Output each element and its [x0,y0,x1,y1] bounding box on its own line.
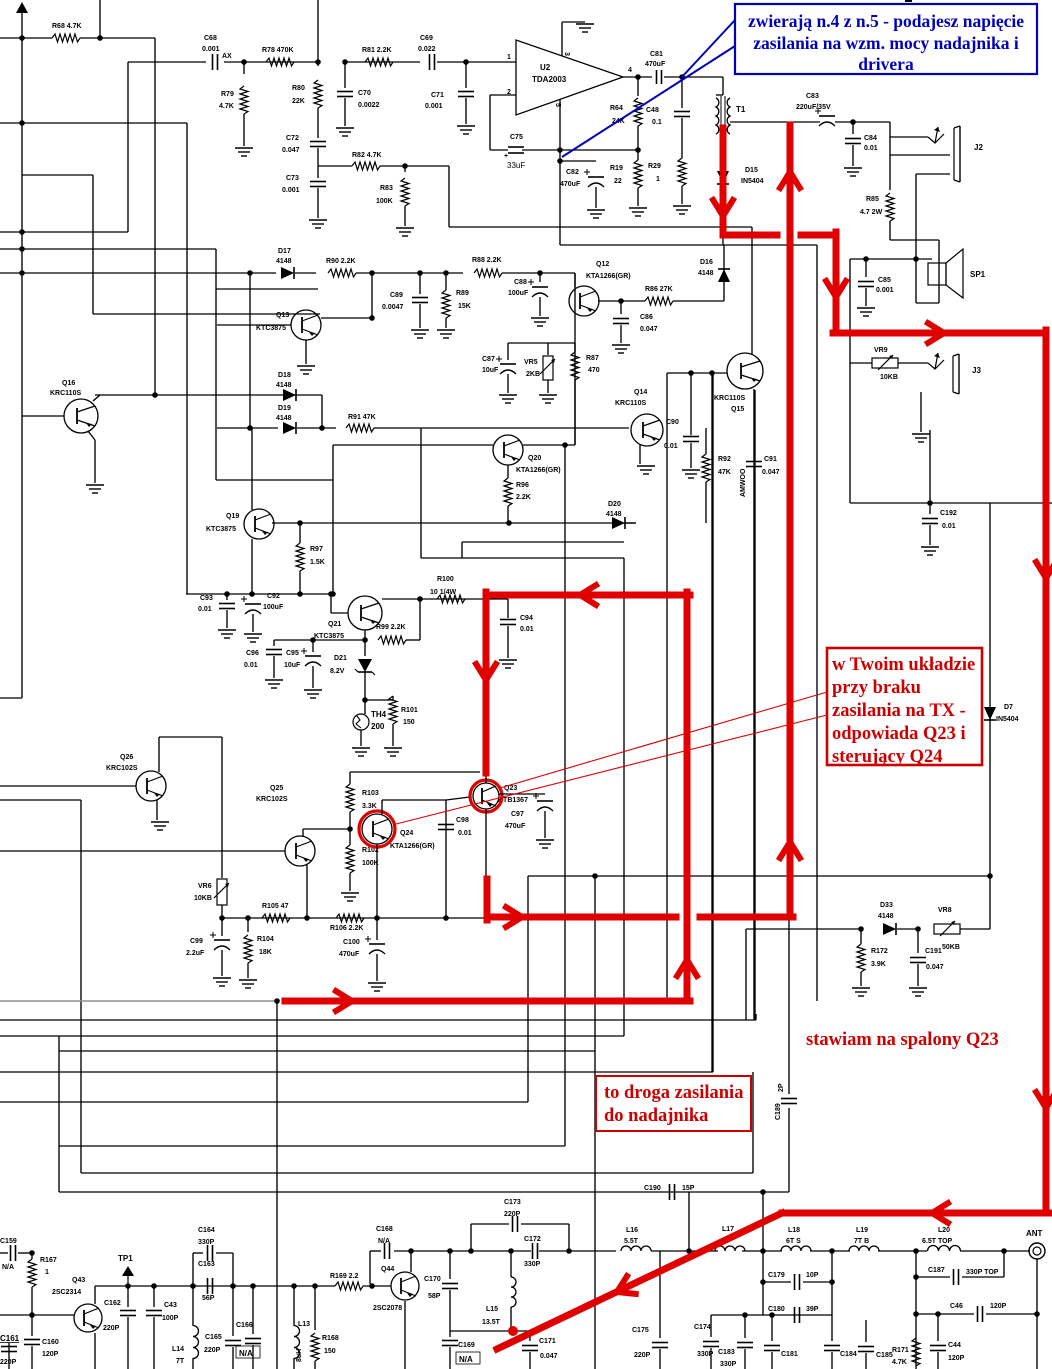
label [874,347,888,354]
transistor Q20 [493,435,523,465]
node [468,1248,474,1254]
label [640,326,658,333]
svg-text:C43: C43 [164,1302,177,1309]
wire [0,799,81,801]
wire [0,1000,277,1002]
wire [94,1286,96,1304]
wire [485,775,487,783]
resistor R68 [52,34,80,42]
transistor Q23 [473,783,499,809]
wire [99,0,101,38]
ground [297,366,315,374]
ground [612,345,630,353]
red arrow [476,664,496,680]
svg-text:D18: D18 [278,372,291,379]
label [276,415,292,422]
wire [404,206,406,226]
capacitor C173 [513,1216,518,1232]
node [679,74,685,80]
red note text [604,1083,743,1126]
label [418,46,436,53]
wire [471,1223,509,1225]
capacitor C68 [213,54,218,70]
svg-text:2.2K: 2.2K [516,494,531,501]
resistor R80 [314,80,322,108]
red path segment [684,592,691,1001]
label [72,1277,85,1284]
transistor Q44 [391,1272,419,1300]
label [106,765,138,772]
label [806,1306,819,1313]
svg-text:R171: R171 [892,1347,909,1354]
wire [989,876,991,929]
wire [723,245,725,301]
label [540,1353,558,1360]
ground [499,395,517,403]
wire [276,1001,278,1369]
wire [382,598,508,600]
inductor L13 [294,1326,300,1359]
label [486,1306,498,1313]
svg-text:U2: U2 [540,63,551,72]
svg-text:D17: D17 [278,248,291,255]
label [731,406,744,413]
svg-text:R68 4.7K: R68 4.7K [52,23,82,30]
highlight circle Q24 [359,811,395,847]
wire [762,1192,764,1251]
label [626,1227,638,1234]
capacitor C165 [225,1341,241,1346]
label [1004,704,1013,711]
red path segment [801,232,836,239]
wire [507,506,509,523]
label [950,1303,963,1310]
svg-text:C171: C171 [539,1338,556,1345]
label [938,907,952,914]
svg-text:R64: R64 [610,105,623,112]
svg-text:4148: 4148 [276,258,292,265]
label [278,248,291,255]
svg-text:D7: D7 [1004,704,1013,711]
label [284,662,301,669]
svg-text:KRC102S: KRC102S [106,765,138,772]
svg-text:3.3K: 3.3K [362,803,377,810]
svg-text:C166: C166 [236,1322,253,1329]
wire [568,1224,570,1251]
wire [860,929,862,944]
label [259,949,272,956]
label [322,1335,339,1342]
svg-text:L18: L18 [788,1227,800,1234]
wire [314,1286,316,1330]
svg-text:ANT: ANT [1026,1229,1043,1238]
svg-text:zwierają n.4 z n.5 - podajesz: zwierają n.4 z n.5 - podajesz napięcie [748,11,1024,31]
resistor R97 [296,543,304,571]
node [913,256,919,262]
wire [937,1314,939,1341]
wire [293,1358,295,1369]
node [319,425,325,431]
inductor L18 [781,1246,811,1251]
wire [222,917,487,919]
label [2,1264,14,1271]
label [50,390,81,397]
red path segment [285,998,690,1005]
svg-text:100P: 100P [162,1315,179,1322]
label [614,178,622,185]
wire [528,875,990,877]
capacitor C162 [120,1311,136,1316]
label [632,1327,649,1334]
svg-text:C94: C94 [520,615,533,622]
wire [446,797,470,800]
svg-text:100K: 100K [362,860,379,867]
svg-text:R168: R168 [322,1335,339,1342]
wire [710,1315,712,1337]
svg-text:Q12: Q12 [596,261,609,268]
label [880,902,893,909]
wire [574,380,576,445]
wire [317,148,319,166]
svg-text:C95: C95 [286,650,299,657]
wire [445,800,447,918]
resistor R79 [240,86,248,114]
svg-text:0.047: 0.047 [640,326,658,333]
resistor R102 [346,845,354,873]
wire [897,928,918,930]
node [151,1283,157,1289]
wire [449,226,752,228]
wire [410,1251,412,1272]
label [219,103,234,110]
svg-text:C187: C187 [928,1267,945,1274]
svg-text:C71: C71 [431,92,444,99]
wire [365,699,393,701]
label [314,633,344,640]
wire [560,244,817,246]
wire [831,1315,833,1341]
red note box Q23/Q24 [827,648,982,765]
wire [0,1101,528,1103]
wire [93,395,100,401]
node [915,926,921,932]
wire [929,525,931,545]
label [697,1351,714,1358]
svg-text:R29: R29 [648,163,661,170]
wire [465,62,467,88]
power arrow [16,2,28,13]
wire [243,62,245,74]
capacitor C85 [858,282,874,287]
label [378,1238,390,1245]
label [925,948,942,955]
transistor Q43 [74,1304,102,1332]
node [190,1283,196,1289]
label [539,1338,556,1345]
label [198,1227,215,1234]
resistor R19 [634,160,642,188]
diode D33 [883,923,896,935]
label [222,53,232,60]
label [431,92,444,99]
label [612,118,625,125]
capacitor C82 [584,169,604,187]
pin 3 [563,52,570,56]
inductor L17 [715,1246,745,1251]
thermistor TH4 [353,710,387,731]
wire [850,362,872,364]
wire [0,248,216,250]
wire [344,62,346,88]
wire [450,1330,530,1332]
svg-text:120P: 120P [990,1303,1007,1310]
label [650,51,663,58]
svg-text:R96: R96 [516,482,529,489]
ground [86,485,104,493]
wire [929,430,931,503]
label [380,185,393,192]
wire [507,465,509,478]
resistor R83 [401,178,409,206]
capacitor C163 [208,1278,213,1294]
label [498,797,528,804]
svg-text:R106 2.2K: R106 2.2K [330,925,363,932]
capacitor C168 [385,1243,390,1259]
label [860,209,883,216]
svg-text:5.5T: 5.5T [624,1238,639,1245]
svg-text:C72: C72 [286,135,299,142]
label [942,523,956,530]
label [286,650,299,657]
node [417,270,423,276]
label [586,355,599,362]
capacitor C180 [795,1307,800,1323]
label 33uF [507,161,525,170]
label [202,1295,215,1302]
svg-text:Q44: Q44 [381,1266,394,1273]
wire [746,928,861,930]
red arrow [826,281,846,297]
wire [803,1281,832,1283]
wire [217,324,291,326]
wire [94,1333,96,1369]
blue note text [748,11,1024,74]
capacitor C95 [301,648,321,666]
svg-text:T1: T1 [736,105,746,114]
label 2P [778,1083,785,1092]
svg-text:33uF: 33uF [507,161,525,170]
capacitor C75 [508,147,524,153]
svg-text:R85: R85 [866,196,879,203]
capacitor C159 [11,1245,16,1261]
svg-text:C73: C73 [286,175,299,182]
wire [232,1253,234,1286]
svg-text:220P: 220P [634,1352,651,1359]
node [1034,1311,1040,1317]
label [996,716,1019,723]
label [786,1238,801,1245]
wire [59,1145,565,1147]
node [328,591,334,597]
svg-text:1: 1 [45,1269,49,1276]
wire [224,61,318,63]
label [343,939,360,946]
svg-text:0.01: 0.01 [458,830,472,837]
node [315,59,321,65]
svg-text:L20: L20 [938,1227,950,1234]
label [615,400,646,407]
svg-text:Q20: Q20 [528,455,541,462]
label [262,47,294,54]
red note text [832,655,975,767]
wire [127,62,129,232]
svg-text:C44: C44 [948,1342,961,1349]
wire [915,1337,917,1339]
wire [539,273,541,282]
svg-text:C162: C162 [104,1300,121,1307]
label [373,1305,402,1312]
wire [321,395,323,428]
svg-text:22K: 22K [292,98,305,105]
wire [465,98,467,124]
label [52,23,82,30]
label [292,85,305,92]
svg-text:R79: R79 [221,91,234,98]
wire [755,1014,757,1020]
wire [0,231,128,233]
capacitor C190 [670,1184,675,1200]
wire [299,523,301,543]
transistor Q26 [136,771,166,801]
svg-text:0.001: 0.001 [202,46,220,53]
wire [186,593,333,595]
svg-text:J3: J3 [972,366,981,375]
wire [317,0,319,62]
label [520,615,533,622]
svg-text:C183: C183 [718,1349,735,1356]
wire [445,318,447,328]
svg-text:C98: C98 [456,817,469,824]
red path segment [833,232,840,333]
svg-text:Q14: Q14 [634,389,647,396]
label [666,419,679,426]
transistor Q14 [631,414,663,446]
capacitor C189 [781,1099,797,1104]
ground [151,822,169,830]
inductor L15 [511,1277,516,1307]
label [504,1199,521,1206]
inductor L16 [621,1246,651,1251]
label [286,135,299,142]
wire [865,1353,867,1369]
resistor R96 [504,478,512,506]
svg-text:R86 27K: R86 27K [645,286,673,293]
wire [356,272,463,274]
label [376,198,393,205]
capacitor C191 [910,958,926,963]
wire [659,1251,661,1338]
label [352,152,382,159]
svg-text:R167: R167 [40,1257,57,1264]
label [205,1334,222,1341]
wire [507,343,509,360]
capacitor C175 [652,1343,668,1348]
svg-text:KTC3875: KTC3875 [256,325,286,332]
capacitor C90 [683,437,699,442]
label [864,145,878,152]
wire [274,639,365,641]
capacitor C96 [266,650,282,655]
svg-text:R91 47K: R91 47K [348,414,376,421]
label [278,372,291,379]
label [504,153,508,160]
label [714,395,745,402]
label [262,903,289,910]
svg-text:L15: L15 [486,1306,498,1313]
svg-text:C160: C160 [42,1339,59,1346]
svg-text:N/A: N/A [2,1264,14,1271]
label [720,1361,737,1368]
wire [449,1290,451,1331]
resistor R100 [437,595,465,603]
wire [382,799,446,801]
capacitor C48 [674,112,690,117]
red arrow [928,323,944,343]
svg-text:KRC110S: KRC110S [615,400,646,407]
svg-text:KTA1266(GR): KTA1266(GR) [586,273,631,280]
wire [95,394,322,396]
wire [639,445,641,464]
wire [364,630,366,656]
svg-text:KRC102S: KRC102S [256,796,288,803]
red path segment [486,592,690,599]
resistor R171 [912,1338,920,1366]
capacitor C71 [458,92,474,97]
svg-text:C93: C93 [200,595,213,602]
label [644,1185,661,1192]
resistor R104 [244,935,252,963]
ground [912,434,930,442]
svg-text:0.047: 0.047 [762,469,780,476]
wire [637,77,639,96]
svg-text:VR5: VR5 [524,359,538,366]
node [417,596,423,602]
svg-text:D33: D33 [880,902,893,909]
wire [80,800,82,1173]
inductor L20 [928,1246,961,1251]
diode D19 [283,422,296,434]
svg-text:C82: C82 [566,169,579,176]
svg-text:Q24: Q24 [400,830,413,837]
wire [404,166,406,172]
svg-text:4148: 4148 [276,382,292,389]
svg-text:C87: C87 [482,356,495,363]
svg-text:C46: C46 [950,1303,963,1310]
diode D20 [612,517,625,529]
svg-text:18K: 18K [259,949,272,956]
wire [331,612,348,614]
svg-text:4.7K: 4.7K [219,103,234,110]
node [19,270,25,276]
label [298,1321,310,1328]
svg-text:C96: C96 [246,650,259,657]
capacitor C93 [219,604,235,609]
label [164,1302,177,1309]
label [472,257,502,264]
label [236,1322,253,1329]
wire [490,149,508,151]
svg-text:TDA2003: TDA2003 [532,75,567,84]
